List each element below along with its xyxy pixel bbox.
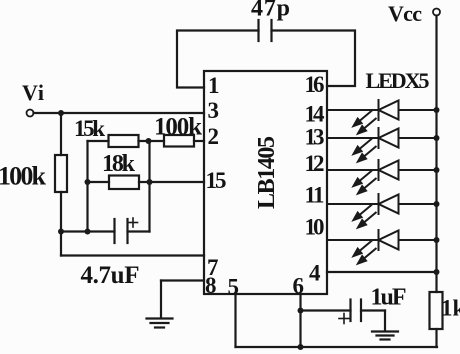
svg-text:11: 11	[305, 183, 325, 208]
svg-text:1: 1	[208, 73, 220, 98]
svg-text:2: 2	[208, 124, 220, 149]
svg-text:16: 16	[305, 72, 325, 97]
svg-text:4.7uF: 4.7uF	[81, 262, 140, 289]
svg-text:18k: 18k	[102, 151, 136, 177]
svg-text:12: 12	[305, 151, 325, 176]
svg-text:14: 14	[305, 102, 326, 127]
svg-text:8: 8	[205, 273, 217, 298]
svg-text:10: 10	[305, 215, 325, 240]
svg-text:Vcc: Vcc	[388, 1, 422, 26]
svg-text:LEDX5: LEDX5	[366, 68, 430, 93]
svg-text:Vi: Vi	[22, 80, 44, 105]
svg-text:100k: 100k	[154, 114, 202, 141]
svg-text:6: 6	[293, 274, 305, 299]
svg-text:4: 4	[309, 261, 321, 286]
svg-text:15k: 15k	[74, 116, 105, 141]
svg-text:LB1405: LB1405	[254, 136, 280, 209]
svg-text:15: 15	[206, 168, 227, 193]
svg-text:1uF: 1uF	[371, 285, 407, 311]
svg-text:1k: 1k	[441, 296, 460, 321]
svg-text:47p: 47p	[251, 0, 290, 22]
svg-text:5: 5	[228, 275, 240, 300]
svg-text:3: 3	[208, 98, 220, 123]
svg-text:100k: 100k	[0, 162, 47, 191]
svg-text:13: 13	[305, 125, 325, 150]
